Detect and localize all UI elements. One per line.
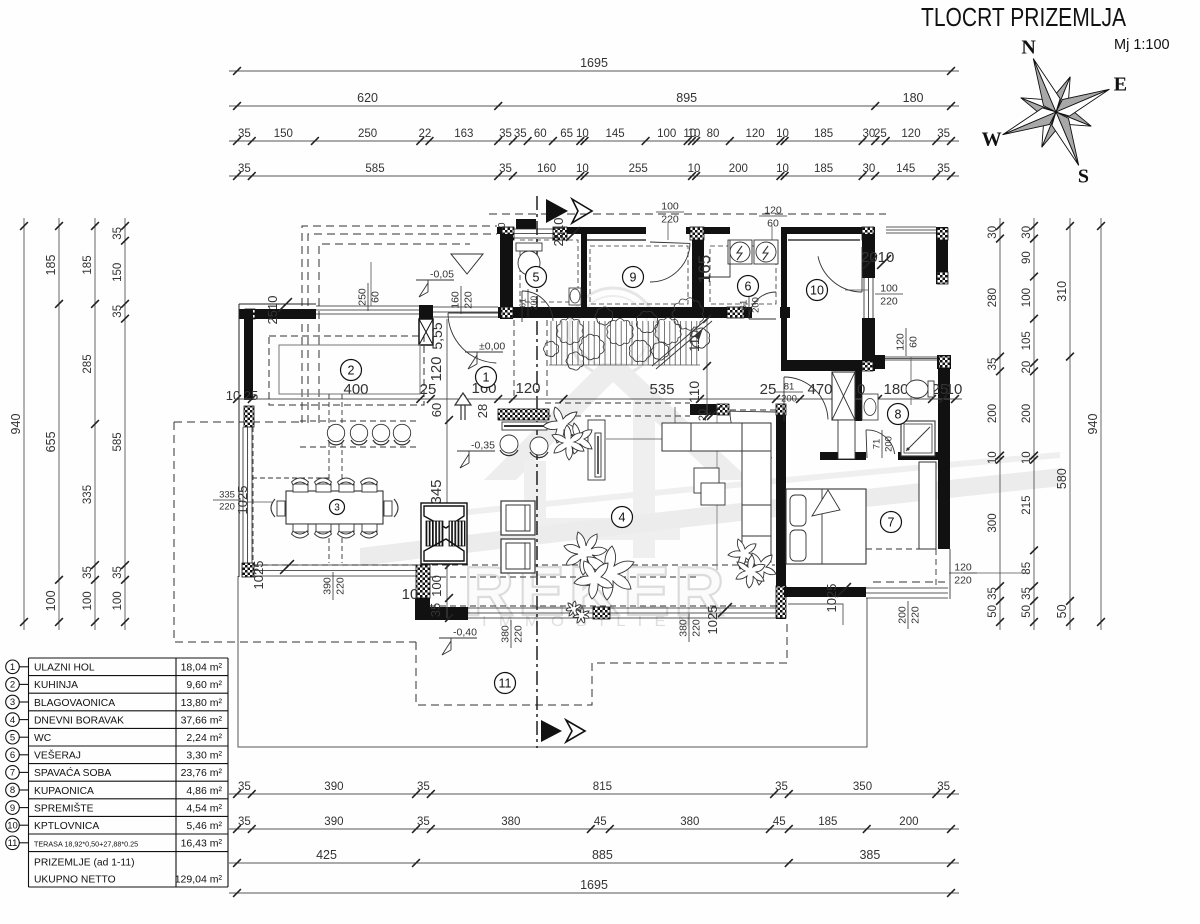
wc toilet [516,243,542,251]
dining table [286,491,383,524]
svg-text:WC: WC [34,733,52,744]
east wall bathroom/bedroom [938,369,950,549]
svg-text:400: 400 [343,381,368,398]
svg-text:585: 585 [365,163,384,175]
svg-text:60: 60 [534,128,547,140]
svg-text:10: 10 [7,820,18,831]
west wall [238,304,240,577]
svg-text:35: 35 [499,163,512,175]
room label 5 [526,267,547,288]
svg-text:37,66 m²: 37,66 m² [181,714,223,726]
svg-text:220: 220 [661,214,679,226]
svg-text:KUHINJA: KUHINJA [34,680,78,691]
wardrobe [919,462,936,549]
window label 380/220 left [500,620,525,648]
svg-text:145: 145 [896,163,915,175]
svg-text:10: 10 [987,451,999,464]
window label 120/220 se [963,572,1030,574]
dimension col right 940 [1100,218,1102,630]
svg-text:535: 535 [649,381,674,398]
svg-text:180: 180 [883,381,908,398]
svg-text:61: 61 [739,300,750,311]
svg-text:35: 35 [112,566,124,579]
svg-text:60: 60 [429,403,444,417]
svg-text:220: 220 [691,619,703,637]
svg-text:200: 200 [897,606,909,624]
svg-text:Mj 1:100: Mj 1:100 [1114,37,1170,53]
room label 6 [738,276,759,297]
svg-text:160: 160 [537,163,556,175]
room 6 door arc [749,292,776,319]
svg-text:220: 220 [910,606,922,624]
dimension row bottom 1695 [229,892,959,894]
svg-text:250: 250 [357,288,369,306]
stair arrow [694,328,703,340]
room 10 west wall [781,234,787,360]
svg-text:100: 100 [661,201,679,213]
svg-text:35: 35 [514,128,527,140]
svg-text:10: 10 [776,163,789,175]
section mark top [546,199,568,223]
svg-text:815: 815 [593,781,612,793]
svg-text:8: 8 [895,408,902,422]
dimension row top 620/895/180 [229,105,959,107]
svg-text:380: 380 [501,816,520,828]
section line A-A [536,196,538,748]
svg-text:885: 885 [592,848,613,862]
svg-text:1: 1 [483,371,490,385]
window label 100/220 room9 [667,222,669,240]
svg-text:90: 90 [1021,251,1033,264]
armchair 1 [501,501,535,535]
svg-text:185: 185 [44,255,58,276]
svg-text:120: 120 [954,562,972,574]
svg-text:-0,05: -0,05 [430,269,454,281]
corridor door arc [730,411,772,458]
terrace step bedroom [788,604,843,625]
svg-text:50: 50 [1055,604,1069,618]
svg-text:150: 150 [274,128,293,140]
svg-text:220: 220 [335,577,347,595]
svg-text:45: 45 [773,816,786,828]
living south wall [430,607,468,620]
window label 160/220 [450,286,475,314]
svg-text:10: 10 [688,163,701,175]
dimension row bottom 425/885/385 [229,862,959,864]
svg-text:390: 390 [324,816,343,828]
svg-text:3: 3 [334,503,340,514]
coffee table [694,468,719,493]
washing machine 2 [754,240,778,264]
svg-text:60: 60 [370,291,382,303]
svg-text:18,04 m²: 18,04 m² [181,662,223,674]
sofa [662,423,771,562]
svg-text:335: 335 [219,490,235,501]
dimension row bottom detail 2 [229,828,959,830]
exterior wall north-west (porch) [239,303,316,305]
svg-text:100: 100 [657,128,676,140]
svg-text:160: 160 [450,291,462,309]
svg-text:35: 35 [238,128,251,140]
svg-text:13,80 m²: 13,80 m² [181,697,223,709]
svg-text:35: 35 [775,781,788,793]
svg-text:100: 100 [82,591,94,610]
svg-text:285: 285 [82,354,94,373]
level -0,40 [439,638,477,655]
svg-text:S: S [1078,165,1089,187]
wc sink [569,288,581,305]
hall south wall [690,404,729,415]
room 6 step line [704,240,730,277]
svg-text:35: 35 [987,587,999,600]
dimension col right detail 2 [1033,218,1035,630]
bathroom door arc [866,430,895,454]
svg-text:580: 580 [1055,468,1069,489]
svg-text:35: 35 [417,781,430,793]
svg-text:10: 10 [810,284,824,298]
svg-text:380: 380 [678,619,690,637]
svg-text:940: 940 [1086,414,1100,435]
room 9 east wall [692,240,704,307]
svg-text:80: 80 [707,128,720,140]
svg-text:35: 35 [1021,587,1033,600]
svg-text:120: 120 [428,356,445,381]
svg-text:10: 10 [226,388,240,403]
svg-text:35: 35 [112,305,124,318]
svg-text:380: 380 [500,625,512,643]
svg-text:35: 35 [987,358,999,371]
witness line x717 [716,404,718,570]
kitchen vertical dashed lines [252,394,342,563]
dimension row top 1695 [229,70,959,72]
svg-text:1: 1 [10,662,15,673]
svg-text:KPTLOVNICA: KPTLOVNICA [34,821,99,832]
svg-text:110: 110 [686,381,702,404]
room label 11 [495,673,516,694]
svg-text:N: N [1021,37,1036,59]
svg-text:35: 35 [417,816,430,828]
svg-text:9: 9 [630,271,637,285]
room label 7 [881,512,902,533]
svg-text:35: 35 [238,163,251,175]
svg-text:30: 30 [863,163,876,175]
interior dimension line [237,398,962,400]
svg-text:100: 100 [429,575,444,597]
svg-text:PRIZEMLJE (ad 1-11): PRIZEMLJE (ad 1-11) [34,858,135,869]
level +-0,00 [465,352,503,369]
upper band top wall [497,227,514,234]
upper band bottom wall [498,307,752,318]
svg-text:25: 25 [760,381,777,398]
svg-text:-0,35: -0,35 [471,440,495,452]
svg-text:25: 25 [874,128,887,140]
svg-text:200: 200 [729,163,748,175]
svg-text:2,24 m²: 2,24 m² [186,732,222,744]
svg-text:35: 35 [238,781,251,793]
vertical dim 110 pair [706,319,708,416]
svg-text:UKUPNO NETTO: UKUPNO NETTO [34,875,116,886]
carport dashed outline west [174,422,416,642]
svg-text:20: 20 [697,409,709,421]
bedroom south wall [784,587,866,597]
dimension col right 310/580/50 [1069,218,1071,630]
door label 61/200 wc [518,289,539,317]
roof overhang dashed outline [302,214,945,705]
svg-text:4: 4 [619,511,626,525]
svg-text:30: 30 [1021,226,1033,239]
svg-text:120: 120 [901,128,920,140]
door label 61/200 room6 [739,291,762,319]
svg-text:16,43 m²: 16,43 m² [181,838,223,850]
svg-text:11: 11 [8,838,18,849]
washing machine 1 [728,240,752,264]
svg-text:1695: 1695 [580,56,608,70]
svg-text:TLOCRT PRIZEMLJA: TLOCRT PRIZEMLJA [921,2,1127,32]
window label 390/220 [322,572,347,600]
svg-text:11: 11 [499,677,512,691]
level -0,35 [457,451,495,468]
svg-text:23,76 m²: 23,76 m² [181,767,223,779]
svg-text:ULAZNI HOL: ULAZNI HOL [34,663,95,674]
svg-text:2: 2 [348,364,355,378]
svg-text:25: 25 [244,388,258,403]
svg-text:165: 165 [695,255,714,283]
vertical dim 345/100/35 [446,420,448,618]
svg-text:28: 28 [475,404,490,418]
room label 4 [612,507,633,528]
property outline [238,576,867,747]
svg-text:100: 100 [880,283,898,295]
svg-text:BLAGOVAONICA: BLAGOVAONICA [34,698,115,709]
label 335/220 dining [213,490,241,513]
svg-text:200: 200 [1021,404,1033,423]
armchair 2 [501,539,535,573]
svg-text:129,04 m²: 129,04 m² [175,874,223,886]
svg-text:-0,40: -0,40 [453,627,477,639]
svg-text:5,55: 5,55 [429,322,445,349]
svg-text:6: 6 [10,750,15,761]
svg-text:7: 7 [888,516,895,530]
dimension col left 185/655/100 [58,218,60,630]
svg-text:35: 35 [937,163,950,175]
svg-text:VEŠERAJ: VEŠERAJ [34,749,81,762]
window label 120/60 bath [910,357,912,405]
dimension col left 940 [23,218,25,630]
south-west pier column [415,598,430,620]
svg-text:200: 200 [781,394,797,405]
svg-text:2: 2 [10,680,15,691]
svg-text:22: 22 [419,128,432,140]
svg-text:35: 35 [112,227,124,240]
pier with X column [419,305,433,319]
spiky tree top [543,407,578,443]
spiky tree right [728,539,757,569]
svg-text:350: 350 [853,781,872,793]
kitchen counter [279,345,420,394]
svg-text:SPREMIŠTE: SPREMIŠTE [34,801,94,814]
watermark logo [360,288,1062,630]
window label 250/60 [370,262,372,306]
svg-text:120: 120 [895,333,907,351]
living/bedroom divider wall [776,404,786,619]
svg-text:3,30 m²: 3,30 m² [186,750,222,762]
bed [786,489,866,564]
svg-text:895: 895 [676,91,697,105]
compass rose [1003,59,1110,166]
bathroom west wall [855,369,862,421]
room label 2 [341,360,362,381]
room 10 east wall [862,234,875,278]
room interior dashed rects [590,246,688,304]
svg-text:335: 335 [82,485,94,504]
svg-text:20: 20 [1021,361,1033,374]
window label 200/220 [897,601,922,629]
svg-text:120: 120 [764,205,782,217]
svg-text:200: 200 [987,404,999,423]
svg-text:200: 200 [751,297,762,313]
svg-text:585: 585 [112,432,124,451]
svg-text:45: 45 [594,816,607,828]
legend table [29,658,229,887]
svg-text:390: 390 [324,781,343,793]
dimension col left detail 1 [94,218,96,630]
svg-text:100: 100 [44,590,58,611]
svg-text:220: 220 [219,502,235,513]
hall cabinet [502,422,547,430]
north-east corner wall [936,227,948,284]
svg-text:9: 9 [10,803,15,814]
entry hatched wall below wc [498,409,549,420]
south-east corner [949,549,951,599]
dimension row top detail 2 [229,175,959,177]
svg-text:35: 35 [937,781,950,793]
svg-text:65: 65 [560,128,573,140]
svg-text:E: E [1114,74,1127,96]
dining south window band [252,565,416,576]
fireplace [421,503,467,564]
svg-text:30: 30 [987,226,999,239]
room label 9 [623,267,644,288]
dashed line south windows [430,605,776,607]
svg-text:105: 105 [1021,331,1033,350]
bathroom north wall [875,355,885,369]
svg-text:35: 35 [499,128,512,140]
svg-text:220: 220 [463,291,475,309]
svg-text:6: 6 [745,280,752,294]
hall chairs [500,435,518,453]
room 9 west wall [581,234,587,307]
svg-text:35: 35 [238,816,251,828]
small sprig bottom [566,601,581,617]
door label 71/200 bath [872,430,895,458]
svg-text:1025: 1025 [824,584,839,613]
svg-text:200: 200 [529,296,539,310]
dimension row bottom detail [229,793,959,795]
dimension col left detail 2 [124,218,126,630]
svg-text:1025: 1025 [235,486,250,515]
door label 100/220 room10 [845,289,868,291]
entry arrow [455,393,471,420]
spiky tree bottom big [564,532,607,575]
wc door arc [522,291,553,321]
svg-text:1025: 1025 [705,606,720,635]
bathroom south wall [820,452,866,460]
svg-text:60: 60 [767,218,779,230]
svg-text:2510: 2510 [265,296,280,325]
room label 10 [807,280,828,301]
svg-text:220: 220 [880,296,898,308]
svg-text:300: 300 [987,513,999,532]
svg-text:8: 8 [10,785,15,796]
room label 1 [476,367,497,388]
svg-text:10: 10 [1021,451,1033,464]
svg-text:4: 4 [10,715,15,726]
svg-text:255: 255 [629,163,648,175]
svg-text:10: 10 [688,128,701,140]
svg-text:5: 5 [10,732,15,743]
svg-text:3: 3 [10,697,15,708]
svg-text:380: 380 [680,816,699,828]
svg-text:±0,00: ±0,00 [479,341,505,353]
shower [901,421,935,456]
deck bushes [557,318,583,345]
svg-text:2510: 2510 [551,218,566,247]
svg-text:81: 81 [784,382,795,393]
svg-text:385: 385 [859,848,880,862]
window label 120/60 room6 [771,226,773,240]
svg-text:10: 10 [576,128,589,140]
svg-text:TERASA 18,92*0,50+27,88*0.25: TERASA 18,92*0,50+27,88*0.25 [34,840,138,849]
room label 3 [330,500,345,515]
interior dashed lines [252,320,936,587]
svg-text:425: 425 [316,848,337,862]
shaft X-box [832,372,855,420]
room 9 door arc [650,243,690,282]
svg-text:71: 71 [872,439,883,450]
svg-text:345: 345 [428,479,445,504]
svg-text:280: 280 [987,288,999,307]
svg-text:35: 35 [428,603,443,617]
svg-text:5,46 m²: 5,46 m² [186,820,222,832]
room 10 bottom wall [781,360,875,371]
svg-text:1695: 1695 [580,878,608,892]
svg-text:150: 150 [112,263,124,282]
svg-text:390: 390 [322,577,334,595]
svg-text:310: 310 [1055,281,1069,302]
bar counter dashed [300,421,420,447]
room label 8 [888,404,909,425]
svg-text:100: 100 [112,591,124,610]
svg-text:200: 200 [899,816,918,828]
svg-text:180: 180 [903,91,924,105]
room 10 door arc [818,256,862,292]
tv sideboard [588,420,605,480]
level -0,05 [416,280,454,297]
svg-text:120: 120 [746,128,765,140]
dimension row top detail 1 [229,140,959,142]
window label 380/220 right [678,614,703,642]
svg-text:220: 220 [513,625,525,643]
svg-text:145: 145 [606,128,625,140]
svg-text:10: 10 [576,163,589,175]
svg-text:185: 185 [814,163,833,175]
svg-text:100: 100 [1021,288,1033,307]
svg-text:185: 185 [814,128,833,140]
svg-text:W: W [982,128,1002,150]
svg-text:SPAVAĆA SOBA: SPAVAĆA SOBA [34,766,111,779]
svg-text:10: 10 [946,381,963,398]
bath toilet [906,380,928,398]
